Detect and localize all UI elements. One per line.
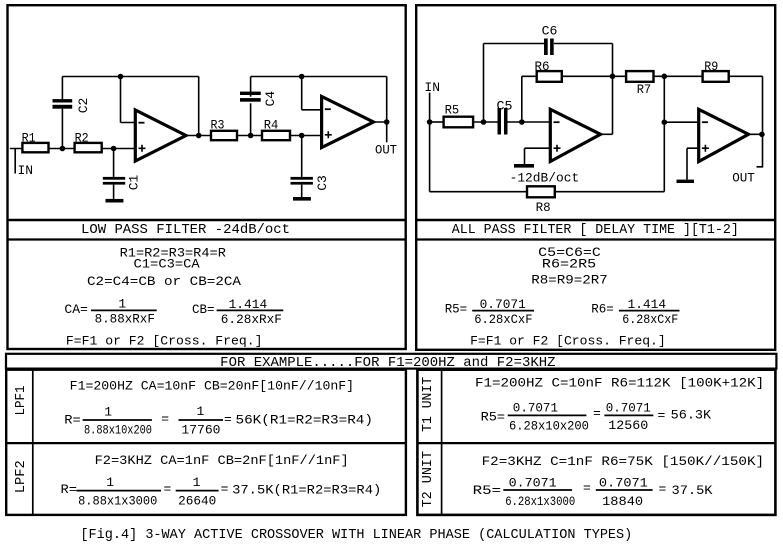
capacitor C2 branch	[61, 77, 63, 149]
svg-text:=: =	[164, 482, 172, 497]
svg-text:8.88x10x200: 8.88x10x200	[84, 423, 152, 438]
svg-text:CA=: CA=	[64, 302, 88, 317]
capacitor C1 branch	[113, 149, 115, 199]
capacitor C4 branch	[250, 77, 252, 136]
wire R4 to opamp2	[290, 135, 322, 137]
svg-text:R5: R5	[445, 103, 460, 118]
svg-text:6.28xCxF: 6.28xCxF	[622, 312, 678, 327]
svg-text:IN: IN	[18, 163, 34, 178]
wire C5 to opamp minus	[508, 121, 552, 123]
node IN stub	[10, 149, 23, 174]
svg-text:R4: R4	[264, 118, 279, 133]
svg-text:1: 1	[118, 297, 126, 312]
svg-text:6.28xCxF: 6.28xCxF	[474, 312, 532, 327]
svg-text:F=F1 or F2 [Cross. Freq.]: F=F1 or F2 [Cross. Freq.]	[470, 333, 666, 348]
junction rail2	[299, 74, 305, 80]
svg-text:R=: R=	[61, 482, 78, 497]
svg-text:1.414: 1.414	[229, 297, 268, 312]
wire opamp1 out	[186, 135, 211, 137]
svg-text:F1=200HZ C=10nF R6=112K [100: F1=200HZ C=10nF R6=112K [100K+12K]	[475, 376, 764, 391]
svg-text:12560: 12560	[608, 418, 648, 433]
svg-text:C2: C2	[76, 98, 91, 114]
wire R6 to R7	[562, 75, 626, 77]
feedback rail stage1	[62, 77, 198, 136]
svg-text:R5=: R5=	[481, 410, 506, 425]
svg-text:R6=2R5: R6=2R5	[542, 256, 596, 271]
resistor R8	[527, 186, 555, 197]
svg-text:6.28x1x3000: 6.28x1x3000	[505, 494, 575, 509]
svg-text:R6: R6	[535, 59, 550, 74]
svg-text:OUT: OUT	[732, 171, 755, 186]
svg-text:LPF2: LPF2	[13, 460, 29, 493]
all pass filter panel border	[416, 5, 775, 350]
svg-text:R5=: R5=	[473, 483, 502, 498]
svg-text:R6=: R6=	[591, 302, 614, 317]
resistor R5	[444, 117, 474, 128]
svg-text:F2=3KHZ CA=1nF CB=2nF[1nF//1: F2=3KHZ CA=1nF CB=2nF[1nF//1nF]	[95, 453, 349, 468]
resistor R9	[703, 71, 729, 82]
svg-text:1: 1	[193, 475, 201, 490]
svg-text:0.7071: 0.7071	[599, 476, 648, 491]
svg-text:R8: R8	[536, 200, 551, 215]
right example table frame	[417, 370, 775, 515]
svg-text:8.88xRxF: 8.88xRxF	[95, 312, 155, 327]
wire opamp4 out	[749, 134, 763, 167]
junction on rail1	[118, 74, 124, 80]
svg-text:OUT: OUT	[375, 143, 397, 158]
svg-text:R9: R9	[704, 59, 718, 74]
svg-text:1.414: 1.414	[628, 297, 667, 312]
wire R3 to R4	[237, 135, 262, 137]
svg-text:=: =	[161, 412, 169, 427]
svg-text:T2 UNIT: T2 UNIT	[420, 451, 436, 507]
wire R5 to C5	[473, 121, 497, 123]
node IN right vertical	[429, 93, 431, 192]
wire R1 to R2	[49, 148, 75, 150]
wire to R6	[522, 76, 537, 122]
resistor R2	[75, 143, 102, 152]
resistor R3	[211, 131, 237, 140]
svg-text:C6: C6	[542, 24, 558, 39]
svg-text:8.88x1x3000: 8.88x1x3000	[78, 493, 157, 508]
svg-text:IN: IN	[424, 80, 440, 95]
svg-text:ALL PASS FILTER [ DELAY TIME ]: ALL PASS FILTER [ DELAY TIME ][T1-2]	[452, 223, 739, 238]
ground opamp4	[677, 180, 695, 183]
junction after R7	[662, 74, 668, 80]
resistor R4	[262, 131, 290, 140]
svg-text:0.7071: 0.7071	[509, 476, 557, 491]
svg-text:CB=: CB=	[192, 302, 215, 317]
node after R2	[111, 146, 117, 152]
junction rail R6/R7	[610, 74, 616, 80]
wire opamp3 plus to ground	[525, 148, 552, 164]
ground C1	[106, 199, 124, 203]
svg-text:=: =	[659, 482, 667, 497]
node opamp1 out	[196, 133, 202, 139]
wire R9 to out vertical	[729, 76, 763, 134]
svg-text:1: 1	[106, 475, 114, 490]
svg-text:=: =	[224, 412, 232, 427]
junction IN	[427, 119, 433, 125]
svg-text:=: =	[658, 408, 666, 423]
wire IN to R5	[430, 121, 444, 123]
svg-text:R8=R9=2R7: R8=R9=2R7	[531, 272, 608, 287]
svg-text:=: =	[593, 406, 601, 421]
capacitor C5	[498, 108, 502, 135]
resistor R6	[537, 71, 562, 82]
svg-text:C3: C3	[315, 175, 330, 191]
node B junction	[248, 133, 254, 139]
vertical to R8 line	[663, 76, 665, 191]
svg-text:=: =	[221, 482, 229, 497]
wire up to C6 rail	[484, 44, 613, 135]
low pass filter panel border	[7, 5, 406, 349]
svg-text:1: 1	[104, 404, 112, 419]
svg-text:56.3K: 56.3K	[671, 407, 712, 422]
op-amp U3	[550, 109, 600, 161]
svg-text:F1=200HZ CA=10nF CB=20nF[10n: F1=200HZ CA=10nF CB=20nF[10nF//10nF]	[70, 378, 354, 393]
bottom feedback line R8	[430, 191, 665, 193]
node after C5	[519, 119, 525, 125]
svg-text:T1 UNIT: T1 UNIT	[420, 377, 436, 432]
svg-text:=: =	[583, 481, 591, 496]
svg-text:R=: R=	[64, 412, 81, 427]
svg-text:26640: 26640	[178, 494, 216, 509]
resistor R1	[22, 143, 48, 152]
node opamp2 out	[384, 119, 390, 125]
svg-text:C5: C5	[497, 99, 513, 114]
svg-text:R2: R2	[75, 131, 89, 146]
left example table frame	[6, 370, 406, 515]
node after R4	[299, 133, 305, 139]
svg-text:F=F1 or F2 [Cross. Freq.]: F=F1 or F2 [Cross. Freq.]	[66, 333, 263, 348]
svg-text:1: 1	[196, 404, 204, 419]
svg-text:R7: R7	[637, 82, 652, 97]
svg-text:17760: 17760	[181, 422, 220, 437]
svg-text:18840: 18840	[602, 494, 643, 509]
op-amp U1	[135, 110, 186, 161]
header bar	[6, 354, 776, 369]
resistor R7	[626, 71, 653, 82]
wire to opamp4 minus	[664, 121, 699, 123]
wire R2 to opamp plus	[102, 148, 136, 150]
svg-text:0.7071: 0.7071	[480, 297, 526, 312]
node opamp4 out	[759, 132, 765, 138]
wire R7 to R9	[654, 75, 703, 77]
svg-text:F2=3KHZ C=1nF R6=75K [150K//: F2=3KHZ C=1nF R6=75K [150K//150K]	[482, 454, 764, 469]
svg-text:LOW PASS FILTER -24dB/oct: LOW PASS FILTER -24dB/oct	[81, 223, 290, 238]
svg-text:6.28x10x200: 6.28x10x200	[509, 419, 589, 434]
svg-text:R5=: R5=	[445, 302, 468, 317]
svg-text:[Fig.4] 3-WAY ACTIVE CROSSOVER: [Fig.4] 3-WAY ACTIVE CROSSOVER WITH LINE…	[80, 528, 632, 543]
junction minus node opamp4	[662, 119, 668, 125]
svg-text:C2=C4=CB or CB=2CA: C2=C4=CB or CB=2CA	[87, 274, 241, 289]
node A junction	[60, 146, 66, 152]
node after R5	[481, 119, 487, 125]
svg-text:56K(R1=R2=R3=R4): 56K(R1=R2=R3=R4)	[236, 412, 374, 427]
svg-text:C1=C3=CA: C1=C3=CA	[134, 256, 200, 271]
svg-text:-12dB/oct: -12dB/oct	[510, 171, 580, 186]
svg-text:6.28xRxF: 6.28xRxF	[221, 312, 282, 327]
svg-text:C1: C1	[126, 175, 141, 191]
ground opamp3	[514, 164, 534, 168]
svg-text:R3: R3	[211, 118, 225, 133]
feedback rail stage2	[251, 77, 387, 123]
svg-text:R1: R1	[22, 131, 36, 146]
op-amp U2	[322, 97, 374, 148]
svg-text:0.7071: 0.7071	[606, 401, 651, 416]
svg-text:37.5K(R1=R2=R3=R4): 37.5K(R1=R2=R3=R4)	[232, 482, 381, 497]
svg-text:0.7071: 0.7071	[513, 401, 558, 416]
wire opamp4 plus to ground	[687, 148, 699, 179]
op-amp U4	[699, 109, 749, 161]
wire opamp3 out	[601, 133, 613, 135]
svg-text:LPF1: LPF1	[13, 386, 29, 416]
svg-text:C4: C4	[263, 91, 278, 107]
svg-text:37.5K: 37.5K	[672, 483, 713, 498]
wire opamp2 out	[374, 122, 387, 142]
capacitor C6	[544, 39, 548, 56]
capacitor C3 branch	[301, 136, 303, 198]
ground C3	[293, 197, 311, 201]
